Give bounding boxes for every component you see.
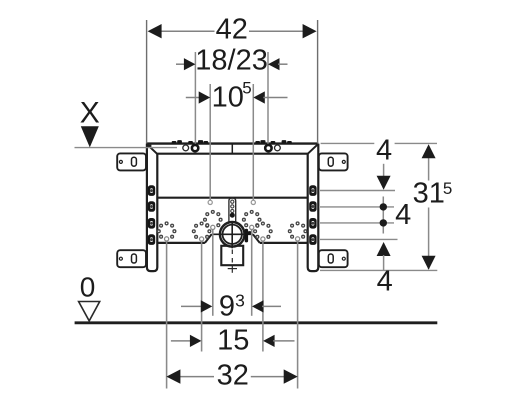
wire X level line (75, 147, 178, 149)
dimension 4 mid dot lower (380, 219, 387, 226)
frame top rail left end step (146, 145, 151, 147)
dimension 15 arrow left (190, 335, 202, 347)
svg-text:9: 9 (219, 290, 235, 322)
wire extension line 18/23 left (194, 52, 196, 151)
dimension 10.5 arrow left (199, 91, 211, 103)
svg-text:4: 4 (376, 135, 392, 167)
wire extension line 42 left (146, 20, 148, 144)
hole ring R4 (243, 211, 261, 227)
dimension 32 arrow right (284, 369, 298, 383)
svg-text:42: 42 (216, 13, 248, 45)
wire right ext line fastener3 (320, 222, 394, 224)
frame top rail left bevel (147, 144, 158, 154)
dimension 9.3 arrow left (201, 300, 213, 312)
frame left rail (147, 144, 157, 272)
svg-text:31: 31 (413, 177, 445, 209)
pipe fitting crosshair vertical (231, 221, 233, 248)
wire extension line 10.5 left (209, 84, 211, 202)
dimension 32 line left (178, 376, 214, 378)
dimension 32 arrow left (166, 369, 180, 383)
hole 10.5 left (208, 200, 212, 204)
dimension 31.5 arrow down (422, 256, 436, 270)
wire extension line 10.5 right (252, 84, 254, 202)
dimension 4 mid dot upper (380, 203, 387, 210)
dimension 31.5 line upper (428, 157, 430, 181)
pipe fitting crosshair horizontal (212, 233, 253, 235)
wire extension line 42 right (317, 20, 319, 144)
drain box centerline dashed (231, 250, 233, 265)
dimension 18/23 arrow left (184, 58, 196, 70)
clips on top rail right group (255, 140, 292, 144)
dimension 42 line (160, 30, 215, 32)
frame top rail bottom edge (157, 153, 308, 155)
wire leader hole R3 bottom (212, 227, 214, 315)
frame right rail (308, 144, 319, 272)
floor line (75, 321, 438, 324)
leader hole R2 (200, 237, 204, 241)
svg-text:3: 3 (235, 290, 245, 310)
dimension 18/23 arrow right (268, 58, 280, 70)
svg-text:32: 32 (217, 359, 249, 391)
dimension 15 arrow right (263, 335, 275, 347)
wire extension line 18/23 right (267, 52, 269, 151)
dimension 31.5 arrow up (422, 144, 436, 158)
svg-text:4: 4 (377, 265, 393, 297)
dimension 9.3 arrow right (252, 300, 264, 312)
wire leader hole R5 bottom (262, 239, 264, 352)
bracket top-left (117, 153, 146, 170)
svg-text:15: 15 (217, 325, 249, 357)
hole 10.5 right (251, 200, 255, 204)
svg-text:5: 5 (242, 79, 251, 98)
clip circle dark right (265, 145, 271, 151)
pipe fitting inner circle (223, 225, 242, 244)
frame top rail top edge (146, 142, 318, 144)
wire leader hole R2 bottom (201, 239, 203, 352)
fasteners right rail (309, 185, 316, 245)
dimension 42 arrow left (148, 24, 162, 38)
dimension 10.5 tail right (263, 97, 287, 99)
leader hole R4 (250, 225, 254, 229)
dimension 4 top line (383, 164, 385, 177)
svg-text:4: 4 (395, 199, 411, 231)
hole ring R6 (288, 222, 306, 238)
dimension 4 mid line (382, 197, 384, 234)
frame plate bottom edge right (260, 242, 308, 244)
pipe fitting outer circle (220, 222, 245, 247)
leader hole R5 (261, 237, 265, 241)
frame top rail right bevel (307, 144, 318, 154)
dimension 31.5 line lower (428, 208, 430, 270)
dimension 10.5 tail left (186, 97, 200, 99)
frame top rail middle seam (231, 144, 233, 154)
leader hole R6 (296, 237, 300, 241)
clamp strip (229, 198, 236, 221)
dimension 10.5 arrow right (253, 91, 264, 103)
hole ring R1 (157, 222, 175, 238)
frame plate bottom edge left (157, 242, 205, 244)
drain box (221, 246, 243, 265)
leader hole R3 (211, 225, 215, 229)
svg-text:18/23: 18/23 (195, 44, 268, 76)
wire right ext line fastener2 (320, 206, 394, 208)
bracket bottom-right (319, 250, 348, 267)
frame plate bottom left diagonal (205, 234, 212, 243)
wire leader hole R4 bottom (251, 227, 253, 315)
node 0 marker triangle (79, 302, 100, 321)
dimension 9.3 tail right (262, 305, 281, 307)
hole ring R3 (204, 211, 222, 227)
bracket top-right (319, 153, 348, 170)
svg-text:X: X (80, 97, 100, 130)
frame plate top edge (157, 197, 307, 199)
dimension 15 tail left (171, 340, 192, 342)
wire leader hole R1 bottom (166, 239, 168, 389)
dimension 9.3 tail left (181, 305, 202, 307)
dimension 18/23 tail left (176, 63, 185, 65)
svg-text:10: 10 (212, 82, 244, 114)
svg-text:0: 0 (80, 271, 96, 302)
dimension 4 bottom arrow up (377, 242, 391, 256)
wire leader hole R6 bottom (297, 239, 299, 389)
wire right ext line rail bottom (320, 269, 437, 271)
dimension 4 bottom line (383, 255, 385, 270)
wire right ext line frame top (321, 142, 375, 144)
clips on top rail left group (172, 140, 209, 144)
dimension 32 line right (251, 376, 286, 378)
dimension 4 top arrow down (377, 176, 391, 190)
clip circle dark left (192, 145, 198, 151)
node X marker triangle (81, 126, 99, 147)
bracket bottom-left (117, 250, 146, 267)
hole ring R2 (192, 222, 210, 238)
clamp screw (245, 229, 248, 243)
wire right ext line fastener1 (320, 190, 395, 192)
svg-text:5: 5 (443, 179, 452, 198)
hole ring R5 (254, 222, 272, 238)
clip circle open left (183, 145, 189, 151)
frame plate bottom right diagonal (253, 234, 260, 243)
leader hole R1 (165, 237, 169, 241)
wire right ext line fastener4 (320, 238, 398, 240)
dimension 42 arrow right (303, 24, 317, 38)
dimension 18/23 tail right (278, 63, 288, 65)
fasteners left rail (148, 185, 155, 245)
dimension 15 tail right (273, 340, 294, 342)
clip circle open right (275, 145, 281, 151)
